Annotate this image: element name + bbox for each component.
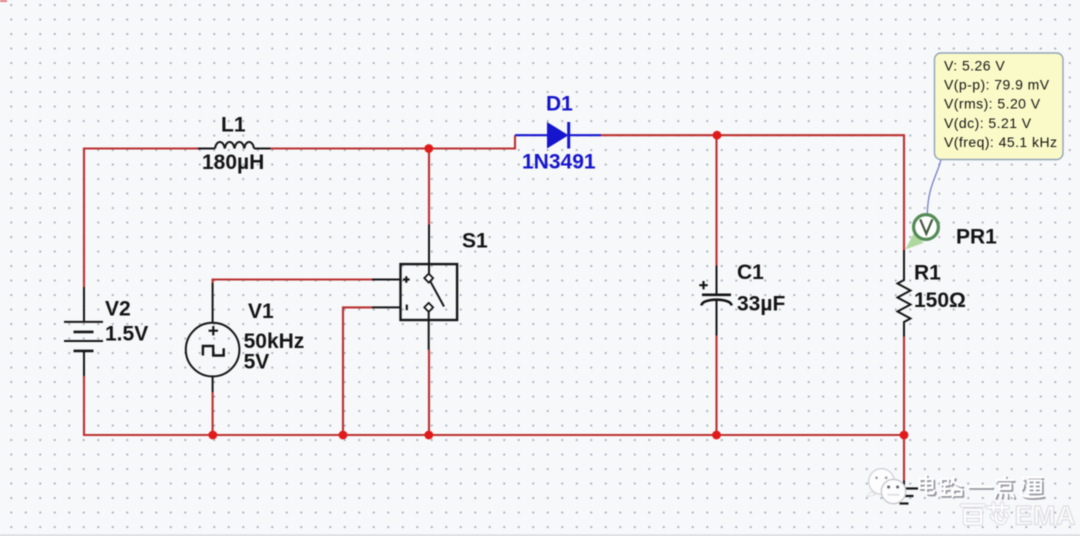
svg-text:180µH: 180µH <box>202 151 264 174</box>
svg-text:33µF: 33µF <box>737 292 785 315</box>
svg-text:V(p-p): 79.9 mV: V(p-p): 79.9 mV <box>944 77 1050 93</box>
svg-text:150Ω: 150Ω <box>914 289 966 312</box>
svg-text:V(rms): 5.20 V: V(rms): 5.20 V <box>944 96 1041 112</box>
svg-text:PR1: PR1 <box>956 226 997 249</box>
svg-text:L1: L1 <box>221 114 246 137</box>
svg-text:1.5V: 1.5V <box>105 323 148 346</box>
svg-text:5V: 5V <box>244 350 270 373</box>
svg-text:D1: D1 <box>546 93 573 116</box>
svg-text:1N3491: 1N3491 <box>522 151 596 174</box>
svg-text:EMA: EMA <box>1015 501 1077 531</box>
svg-text:V(freq): 45.1 kHz: V(freq): 45.1 kHz <box>944 134 1057 150</box>
svg-text:S1: S1 <box>462 230 488 253</box>
svg-text:R1: R1 <box>914 262 941 285</box>
svg-text:V1: V1 <box>248 300 274 323</box>
svg-text:V2: V2 <box>105 298 131 321</box>
svg-text:V: 5.26 V: V: 5.26 V <box>944 58 1005 74</box>
svg-text:V(dc): 5.21 V: V(dc): 5.21 V <box>944 115 1032 131</box>
svg-text:C1: C1 <box>737 261 764 284</box>
